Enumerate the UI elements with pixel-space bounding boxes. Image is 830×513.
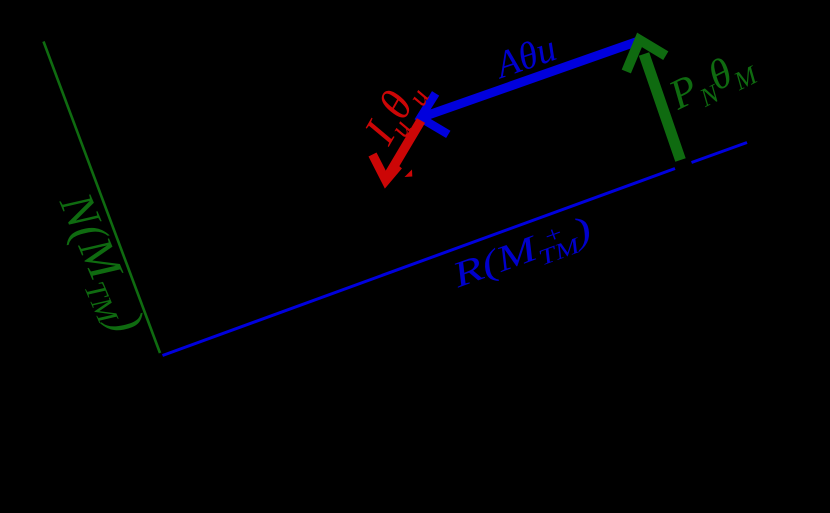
wire dashed extension of R line — [692, 143, 748, 163]
vector A-theta-u blue arrow shaft — [424, 41, 640, 117]
label R(M+_TM) — [447, 207, 597, 296]
label I_u-theta_u — [353, 70, 437, 156]
vector I-theta-u red arrow head — [373, 155, 399, 181]
vector A-theta-u blue arrow head — [420, 93, 448, 134]
label N(M_TM) — [42, 185, 155, 343]
line R(M+_TM) blue subspace line (solid part) — [163, 169, 676, 356]
small red wedge fragment — [405, 170, 413, 178]
vector I-theta-u red arrow shaft — [388, 121, 421, 177]
vector P_N-theta_M green arrow head — [626, 40, 666, 72]
line N(M_TM) green subspace line — [44, 42, 161, 354]
label P_N-theta_M — [662, 39, 762, 124]
vector P_N-theta_M green arrow shaft — [644, 54, 681, 160]
label A-theta-u — [490, 26, 562, 87]
